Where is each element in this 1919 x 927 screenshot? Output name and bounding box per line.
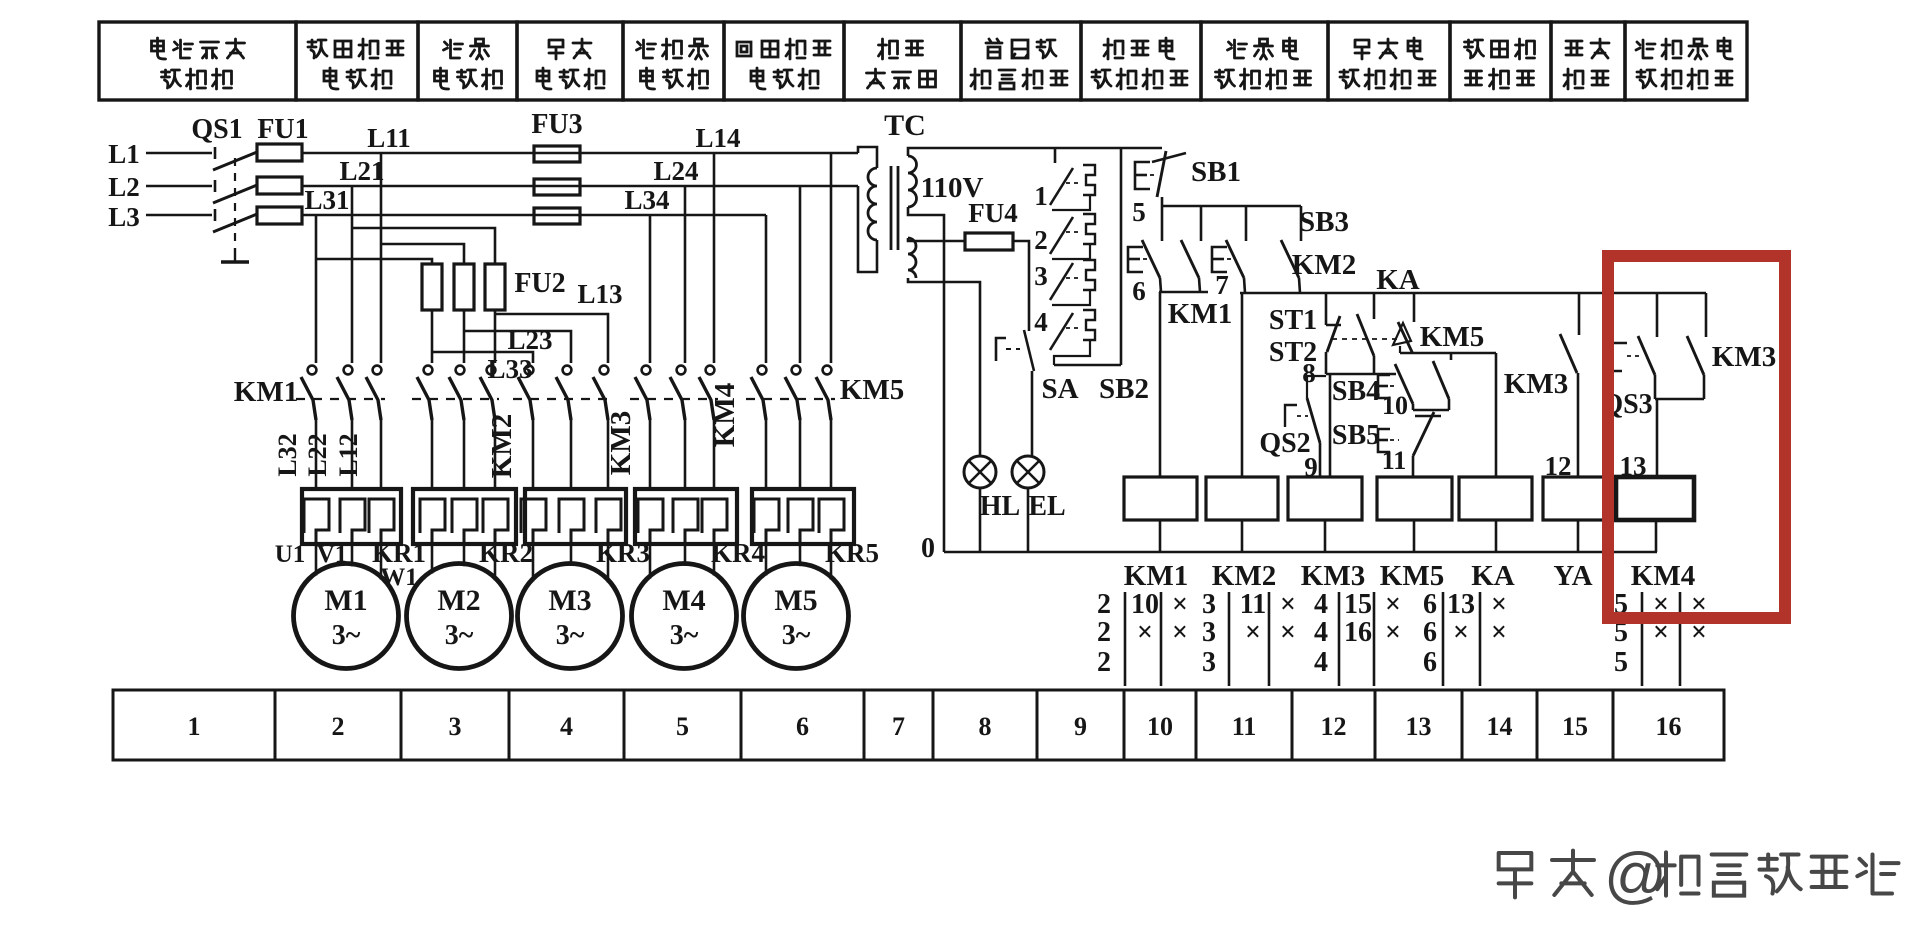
red highlight rectangle [1608,256,1785,618]
svg-text:SB1: SB1 [1191,156,1241,188]
svg-text:KM3: KM3 [1712,341,1776,373]
transformer TC core [890,166,893,250]
svg-text:M4: M4 [662,584,705,617]
svg-text:3: 3 [449,712,462,741]
coil KM5 [1377,477,1452,520]
svg-text:KM5: KM5 [1380,560,1444,592]
header text header 外圆砂轮 [308,39,403,59]
svg-text:×: × [1172,589,1188,620]
svg-text:9: 9 [1074,712,1087,741]
svg-text:1: 1 [188,712,201,741]
svg-text:SB5: SB5 [1332,420,1380,451]
svg-text:3: 3 [1202,589,1216,620]
fuse FU3-1 [534,146,580,162]
svg-text:6: 6 [796,712,809,741]
header text header 冷却泵 [637,39,708,59]
svg-text:L12: L12 [334,433,363,476]
wire node8 to KM3 coil [1329,374,1332,477]
svg-text:13: 13 [1406,712,1432,741]
svg-text:16: 16 [1344,617,1372,648]
svg-text:L24: L24 [653,156,698,186]
thermal relay KR5 [752,489,854,544]
switch QS2 [1285,376,1326,443]
svg-text:2: 2 [1097,647,1111,678]
wire QS2 to KM3 coil [1319,443,1322,477]
svg-text:3~: 3~ [332,620,361,651]
wire L11 drop to KM1 pole3 [380,153,383,363]
transformer TC primary lead bottom [858,186,877,272]
svg-text:16: 16 [1656,712,1682,741]
svg-text:KM1: KM1 [1168,298,1232,330]
wire node7 to KM2 coil [1241,293,1244,477]
svg-text:KA: KA [1471,560,1515,592]
coil KM1 [1124,477,1197,520]
svg-text:KR2: KR2 [479,538,533,568]
svg-text:L3: L3 [108,202,140,232]
wire FU4 to lamp switch [1013,241,1029,331]
motor M3 three-phase [518,544,623,669]
svg-text:15: 15 [1562,712,1588,741]
ground symbol below QS1 [221,248,249,262]
wire L24 drop to KM5 pole2 [799,186,802,363]
svg-text:TC: TC [884,109,926,142]
svg-text:KM2: KM2 [1292,249,1356,281]
header text header 电动机 [641,68,708,89]
svg-text:4: 4 [560,712,573,741]
contactor KM5 main contacts [746,366,835,489]
fuse FU2-2 [454,264,474,310]
button SB2 contact [1128,206,1162,292]
svg-text:×: × [1453,617,1469,648]
header text header 外圆砂 [1465,39,1535,59]
svg-text:KR4: KR4 [711,538,765,568]
header text header 轮架 [1566,39,1609,58]
svg-text:4: 4 [1314,647,1328,678]
header text watermark 叶落飞舞泣 [1657,852,1898,895]
svg-text:14: 14 [1487,712,1513,741]
svg-text:4: 4 [1314,589,1328,620]
table numbers column at 1621 [1614,589,1707,686]
wire YA coil to bus [1577,520,1580,552]
header text header 信号控制 [971,69,1067,89]
svg-text:KM4: KM4 [1631,560,1695,592]
coil KA [1459,477,1532,520]
svg-text:FU4: FU4 [968,198,1018,228]
header text header 头架电 [1355,38,1422,59]
wire KM4 coil to bus [1655,520,1658,552]
svg-text:L14: L14 [695,123,740,153]
wire L14 drop to KM4 pole3 [713,153,716,363]
svg-text:×: × [1385,589,1401,620]
svg-text:L31: L31 [304,185,349,215]
node 10 bar [1413,409,1449,412]
contactor KM1 main contacts [296,366,385,489]
svg-text:0: 0 [921,533,935,564]
wire tap L21 to FU2-3 [352,228,495,264]
transformer TC primary step lead top [858,147,877,168]
svg-text:2: 2 [1097,617,1111,648]
svg-text:M1: M1 [324,584,367,617]
svg-text:L32: L32 [273,433,302,476]
coil YA [1543,477,1613,520]
svg-text:4: 4 [1034,307,1048,337]
svg-text:L23: L23 [507,325,552,355]
svg-text:6: 6 [1132,276,1146,306]
wire HL to 0 bus [979,488,982,552]
transformer TC primary winding [868,168,877,240]
wire L3 to QS1 [146,214,212,217]
wire L33 to KM3 pole1 [432,352,533,363]
header text header 照明及 [986,39,1056,58]
wire KM3 coil to bus [1324,520,1327,552]
wire FU2-3 to KM2 pole3 [494,310,497,363]
function chart header table [99,22,1747,100]
contact KM3 aux pair [1687,293,1706,399]
svg-text:KM3: KM3 [1504,368,1568,400]
svg-text:2: 2 [1097,589,1111,620]
svg-text:5: 5 [1132,197,1146,227]
contact KM5 aux [1433,353,1451,410]
wire KM3 aux to YA coil [1577,373,1580,477]
svg-text:L34: L34 [624,185,669,215]
svg-text:1: 1 [1034,181,1048,211]
transformer TC 110V secondary winding [908,156,917,207]
node 6 bar [1159,291,1208,294]
svg-text:FU2: FU2 [514,268,565,299]
svg-text:3~: 3~ [556,620,585,651]
svg-text:11: 11 [1232,712,1257,741]
svg-text:8: 8 [979,712,992,741]
svg-text:L11: L11 [367,123,411,153]
svg-text:KA: KA [1376,264,1420,296]
svg-text:7: 7 [1215,270,1229,300]
motor M1 three-phase [294,544,399,669]
fuse FU1-2 [257,177,302,194]
contact KA with actuator [1393,293,1414,353]
header text header 电动机 [751,68,818,89]
svg-text:L1: L1 [108,139,140,169]
svg-text:15: 15 [1344,589,1372,620]
node 8 bar [1326,373,1396,376]
svg-text:L13: L13 [577,279,622,309]
header text header 电动机 [435,68,502,89]
switch SA2 lamp switch [996,330,1034,371]
wire L31 drop to KM1 pole1 [315,215,318,363]
header text header 动机控制 [1637,69,1732,89]
svg-text:6: 6 [1423,617,1437,648]
svg-text:×: × [1280,617,1296,648]
wire L21 row [302,185,858,188]
svg-text:W1: W1 [380,564,418,591]
table numbers column at 1321 [1314,589,1401,686]
header text header 变压器 [867,69,936,88]
svg-text:10: 10 [1382,391,1408,420]
svg-text:L2: L2 [108,172,140,202]
contactor KM4 main contacts [630,366,718,489]
svg-text:KM5: KM5 [840,374,904,406]
svg-text:SB4: SB4 [1332,376,1380,407]
svg-text:@: @ [1604,841,1667,910]
svg-text:KR3: KR3 [596,538,650,568]
wire L23 to KM3 pole2 [464,331,571,363]
svg-text:11: 11 [1382,446,1407,475]
fuse FU2-3 [485,264,505,310]
button SB3 contact [1212,206,1246,293]
lamp HL [964,456,996,488]
wire FU2-2 to KM2 pole2 [463,310,466,363]
header text header 内圆砂轮 [737,39,830,59]
wire SB5 to KM5 coil [1412,456,1415,477]
svg-text:KM2: KM2 [1212,560,1276,592]
limit switch ST1 ST2 [1326,293,1374,374]
header text header 及保护 [162,69,232,89]
wire L21 drop to KM1 pole2 [351,186,354,363]
wire to KM4 coil [1656,399,1659,477]
button SB1 [1135,151,1186,197]
node 0 bus [944,551,1657,553]
node 5 bar [1161,197,1164,206]
svg-text:KM3: KM3 [605,411,637,475]
svg-text:3: 3 [1034,261,1048,291]
wire KA output corner [1399,346,1401,353]
svg-text:3: 3 [1202,617,1216,648]
svg-text:KM2: KM2 [486,414,518,478]
wire SA return vertical [1120,148,1123,365]
fuse FU4 [965,233,1013,250]
svg-text:10: 10 [1147,712,1173,741]
button SB5 [1378,412,1441,456]
thermal relay KR2 [413,489,516,544]
svg-text:M5: M5 [774,584,817,617]
svg-text:3~: 3~ [670,620,699,651]
svg-text:12: 12 [1321,712,1347,741]
svg-text:×: × [1137,617,1153,648]
svg-text:6: 6 [1423,589,1437,620]
svg-text:KM5: KM5 [1420,321,1484,353]
wire L2 to QS1 [146,185,212,188]
svg-text:YA: YA [1553,560,1592,592]
header text header 电动机 [324,68,391,89]
header text header 油泵电 [1228,38,1298,59]
header text header 轮控制 [1466,69,1534,89]
wire L34 drop to KM4 pole1 [649,215,652,363]
header text header 电源开关 [152,38,245,59]
switch QS3 [1612,293,1657,399]
wire 110V top to control rail [908,148,1162,156]
svg-text:3: 3 [1202,647,1216,678]
thermal relay KR3 [521,489,626,544]
transformer TC lamp secondary winding [908,238,916,278]
svg-text:7: 7 [892,712,905,741]
dashed link ST to KA [1332,338,1398,340]
svg-text:KM1: KM1 [1124,560,1188,592]
header text header 动机控制 [1092,69,1187,89]
contact KM3 aux single [1560,293,1579,373]
fuse FU1-1 [257,144,302,161]
svg-text:KR5: KR5 [825,538,879,568]
svg-text:L21: L21 [339,156,384,186]
coil KM4 [1616,477,1694,520]
svg-text:6: 6 [1423,647,1437,678]
header text header 控制 [1564,69,1608,89]
svg-text:8: 8 [1302,358,1316,388]
wire L24 drop to KM4 pole2 [684,186,687,363]
button SB4 [1378,364,1413,410]
svg-text:L22: L22 [303,433,332,476]
contactor KM3 main contacts [513,366,612,489]
switch SA pole stubs and blades [1050,148,1095,365]
wire KM5 coil to bus [1413,520,1416,552]
svg-text:QS1: QS1 [191,114,242,145]
svg-text:×: × [1385,617,1401,648]
node 13 bar [1655,398,1704,401]
node bar KA output [1400,352,1496,355]
svg-text:M3: M3 [548,584,591,617]
svg-text:FU1: FU1 [257,114,308,145]
header text header 砂轮电 [1104,38,1174,59]
wire L11 row [302,152,858,155]
switch QS1 linkage dashed [234,158,236,248]
wire L34 drop to KM5 pole1 [765,215,768,363]
svg-text:EL: EL [1028,491,1065,522]
wire L1 to QS1 [146,152,212,155]
svg-text:QS2: QS2 [1259,428,1310,459]
svg-text:10: 10 [1131,589,1159,620]
svg-text:KM1: KM1 [234,376,298,408]
contactor KM2 main contacts [412,366,499,489]
header text header 电动机 [537,68,604,89]
svg-text:×: × [1491,617,1507,648]
motor M2 three-phase [407,544,512,669]
wire tap L31 to FU2-1 [316,259,432,264]
wire EL to 0 bus [1027,488,1030,552]
svg-text:SA: SA [1041,373,1078,405]
motor M4 three-phase [632,544,737,669]
svg-text:3~: 3~ [445,620,474,651]
svg-text:4: 4 [1314,617,1328,648]
svg-text:KM4: KM4 [709,383,741,447]
wire FU2-1 to KM2 pole1 [431,310,434,363]
header text header 动机控制 [1340,69,1435,89]
header text header 动机控制 [1216,69,1311,89]
wire lamp winding bottom to HL [908,278,980,457]
header text watermark 头条 [1499,851,1594,898]
wire SA bottom bar [1054,364,1121,367]
fuse FU3-2 [534,179,580,195]
table numbers column at 1104 [1097,589,1188,686]
svg-text:×: × [1172,617,1188,648]
wire KM1 coil to bus [1159,520,1162,552]
svg-text:5: 5 [1614,647,1628,678]
motor M5 three-phase [744,544,849,669]
wire KA coil to bus [1495,520,1498,552]
wire L13 to KM3 pole3 [495,314,608,363]
svg-text:×: × [1491,589,1507,620]
header text header 油泵 [444,39,489,59]
table numbers column at 1209 [1202,589,1296,686]
thermal relay KR1 [302,489,401,544]
table numbers column at 1430 [1423,589,1507,686]
fuse FU3-3 [534,208,580,224]
coil KM2 [1206,477,1278,520]
coil KM3 [1288,477,1362,520]
svg-text:2: 2 [1034,225,1048,255]
sheet zone number row [113,690,1724,760]
header text header 冷却泵电 [1636,38,1732,59]
svg-text:FU3: FU3 [531,109,582,140]
svg-text:×: × [1245,617,1261,648]
svg-text:×: × [1280,589,1296,620]
svg-text:HL: HL [980,491,1020,522]
svg-text:2: 2 [332,712,345,741]
wire to KA coil [1495,353,1498,477]
thermal relay KR4 [635,489,737,544]
wire tap L11 to FU2-2 [381,244,464,264]
header text header 控制 [879,39,923,59]
svg-text:13: 13 [1447,589,1475,620]
wire lamp winding to FU4 [908,238,965,241]
lamp EL [1012,456,1044,488]
fuse FU2-1 [422,264,442,310]
svg-text:M2: M2 [437,584,480,617]
control rail node7 [1240,292,1706,295]
svg-text:KM3: KM3 [1301,560,1365,592]
wire node6 to KM1 coil [1159,292,1162,477]
svg-text:5: 5 [676,712,689,741]
wire lamp switch to EL [1031,371,1034,457]
svg-text:3~: 3~ [782,620,811,651]
wire L14 drop to KM5 pole3 [830,153,833,363]
contact KM2 aux [1281,206,1301,293]
switch QS1 blades [213,147,257,232]
wire 110V bottom to 0 bus [908,207,944,552]
wire KM2 coil to bus [1241,520,1244,552]
contact KM1 aux [1181,206,1201,292]
svg-text:SB3: SB3 [1299,206,1349,238]
wire L31 row [302,214,766,217]
svg-text:11: 11 [1240,589,1266,620]
header text header 头架 [549,39,591,59]
svg-text:SB2: SB2 [1099,373,1149,405]
svg-text:U1: U1 [275,541,306,568]
fuse FU1-3 [257,207,302,224]
svg-text:ST1: ST1 [1269,305,1317,336]
